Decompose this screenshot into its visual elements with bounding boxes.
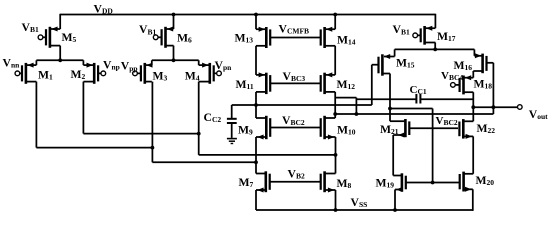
wire Q to M7 drain node [152,161,256,163]
junction dot M16 gate / output [492,105,496,109]
label V_BC4 [441,70,463,82]
wire M21 drain lead [390,120,405,122]
label V_B1 (M6) [139,23,156,36]
transistor M15 [372,54,390,75]
terminal circle V_np [101,71,106,76]
junction dot M14 on VDD [333,13,337,17]
wire M20 source drop [472,189,474,211]
wire M8 source drop [335,190,337,210]
label M22 [477,122,496,135]
wire M15-M16 common source rail [395,48,475,50]
wire M3 drain drop [151,82,153,163]
junction dot M6/M3/M4 tail [172,58,176,62]
junction dot W2/M11/M9 [254,103,258,107]
wire A M2-M4 drains [83,133,198,135]
transistor M21 [393,119,458,138]
wire M17 source riser [434,14,436,28]
label V_BC2 (output) [436,115,458,127]
label M15 [396,57,415,70]
capacitor C_C2 stem bottom [231,124,233,138]
wire V_B2 gate wire [270,181,321,183]
wire M14 source riser [334,15,336,30]
ground symbol below C_C2 [227,139,237,144]
wire M6 drain drop [173,46,175,61]
terminal circle V_pp [133,71,138,76]
wire H1 to C_C1 [356,98,416,100]
wire M15 gate drop [371,65,373,105]
wire M17 drain drop [434,43,436,51]
transistor M22 [459,119,473,139]
wire W3 output long wire [335,113,493,115]
transistor M17 [418,26,436,45]
junction dot M18 drain / output [471,105,475,109]
transistor M12 [321,72,336,94]
label M9 [238,124,253,137]
label V_pp [121,60,138,73]
wire M19 source drop [394,190,396,211]
label M2 [71,68,86,81]
wire H2 to M19-M20 gates [390,108,433,110]
label V_pn [215,59,233,72]
wire M13-M11 link [255,46,257,75]
transistor M8 [321,171,336,192]
label M17 [437,30,456,43]
transistor M16 [473,54,493,74]
terminal circle V_nn [15,71,20,76]
junction dot M15 drain / H2 [388,107,392,111]
wire M10-M8 link [335,137,337,174]
transistor M6 [158,27,173,48]
label M8 [337,177,352,190]
wire M12-M10 link [334,92,336,118]
label V_out [529,108,548,121]
terminal circle V_BC4 [451,83,456,88]
label V_BC2 [282,114,305,127]
label M10 [337,124,356,137]
transistor M3 [137,63,152,84]
wire M16 gate drop [492,63,494,114]
wire H1 left segment [335,97,356,99]
terminal circle V_pn [217,71,222,76]
transistor M4 [199,63,217,84]
wire W2 second-stage node [232,104,372,106]
transistor M14 [321,27,336,48]
wire M3-M4 common source rail [152,59,199,61]
label M16 [454,59,473,72]
label M12 [337,78,356,91]
wire M15 source lead [384,54,395,59]
wire M3 source riser [151,60,153,65]
wire M2 drain drop [82,82,84,134]
wire M7 source drop [255,190,257,210]
label V_DD [94,3,114,16]
transistor M9 [256,116,270,140]
label M13 [235,32,254,45]
transistor M20 [460,172,474,192]
junction dot wire Q end [254,160,258,164]
junction dot wire A / M4 drain [197,132,201,136]
transistor M13 [256,27,270,48]
wire M9 source drop [255,137,257,174]
wire V_DD right corner [434,14,437,16]
transistor M5 [43,27,60,48]
transistor M10 [321,116,336,140]
label M3 [153,69,168,82]
wire B M1-M3 drains [36,147,152,149]
wire M1 source riser [35,60,37,65]
label V_CMFB [279,22,310,35]
transistor M19 [393,173,460,192]
junction dot wire B / M3 drain [151,146,155,150]
wire V_BC2 gate wire [270,127,321,129]
wire VSS right corner [472,209,474,211]
label V_nn [3,57,21,70]
label M18 [474,78,493,91]
terminal circle V_B1 (M17) [413,33,418,38]
label V_SS [351,196,368,209]
transistor M18 [455,75,473,94]
wire M13 source riser [255,15,257,30]
wire M2 source riser [82,60,84,65]
junction dot M19 on VSS [393,208,397,212]
label C_C1 [410,84,427,96]
terminal circle V_B1 (M5) [38,35,43,40]
junction dot M8 on VSS [334,208,338,212]
junction dot hook on W3 [355,112,359,116]
wire M5 source riser [59,14,61,29]
wire V_BC3 gate wire [270,82,321,84]
wire M21 source drop [392,135,394,176]
wire M22 drain drop [472,136,474,173]
wire M11 drain drop [255,92,257,118]
capacitor C_C1 plates [416,94,420,104]
transistor M7 [256,171,270,192]
transistor M2 [83,63,100,84]
wire V_CMFB gate wire [270,37,321,39]
terminal circle V_B1 (M6) [153,35,158,40]
wire M16 source lead [474,53,482,58]
label M11 [236,78,254,91]
wire C_C1 right lead [420,98,473,100]
wire M1-M2 common source rail [36,59,83,61]
capacitor C_C2 stem top [231,105,233,118]
wire P to M8 drain node [199,154,336,156]
wire M14-M12 link [334,46,336,75]
label M14 [337,33,356,46]
label V_B1 (M5) [22,21,39,34]
label M1 [38,69,53,82]
label V_B1 (M17) [393,23,410,36]
label V_BC3 [283,70,306,83]
label V_B2 [288,168,305,181]
junction dot M17 tail [433,48,437,52]
label M21 [380,123,399,136]
junction dot M6 on VDD [172,13,176,17]
wire M16 source drop [473,49,475,55]
junction dot M13 on VDD [254,13,258,17]
wire V_DD rail [60,14,435,16]
wire output to Vout [473,106,517,108]
label V_np [103,59,120,72]
label M5 [62,31,77,44]
wire M15 source drop [394,49,396,56]
label M20 [476,174,495,187]
label C_C2 [204,111,222,124]
wire V_SS rail [256,209,473,211]
wire M5 drain drop [59,46,61,61]
junction dot M5/M1/M2 tail [58,58,62,62]
wire M6 source riser [173,15,175,30]
wire M1 drain drop [35,82,37,148]
label M4 [185,69,200,82]
label M19 [376,177,395,190]
wire hook N3 down [355,98,357,114]
transistor M1 [20,63,37,84]
capacitor C_C2 plates [227,119,237,123]
label M6 [177,32,192,45]
wire M15 drain drop [389,74,391,122]
junction dot H2 on gate wire [431,181,435,185]
wire M4 source riser [198,60,200,65]
terminal circle V_out [518,105,523,110]
transistor M11 [256,72,270,94]
wire M4 drain drop [198,82,200,155]
wire M16 drain drop [472,71,474,78]
wire M21-M19 link [392,175,394,177]
junction dot W3 left end [333,112,337,116]
wire H2 drop [432,109,434,183]
junction dot wire P end [334,153,338,157]
label M7 [239,176,254,189]
wire M18 drain drop [472,92,474,121]
